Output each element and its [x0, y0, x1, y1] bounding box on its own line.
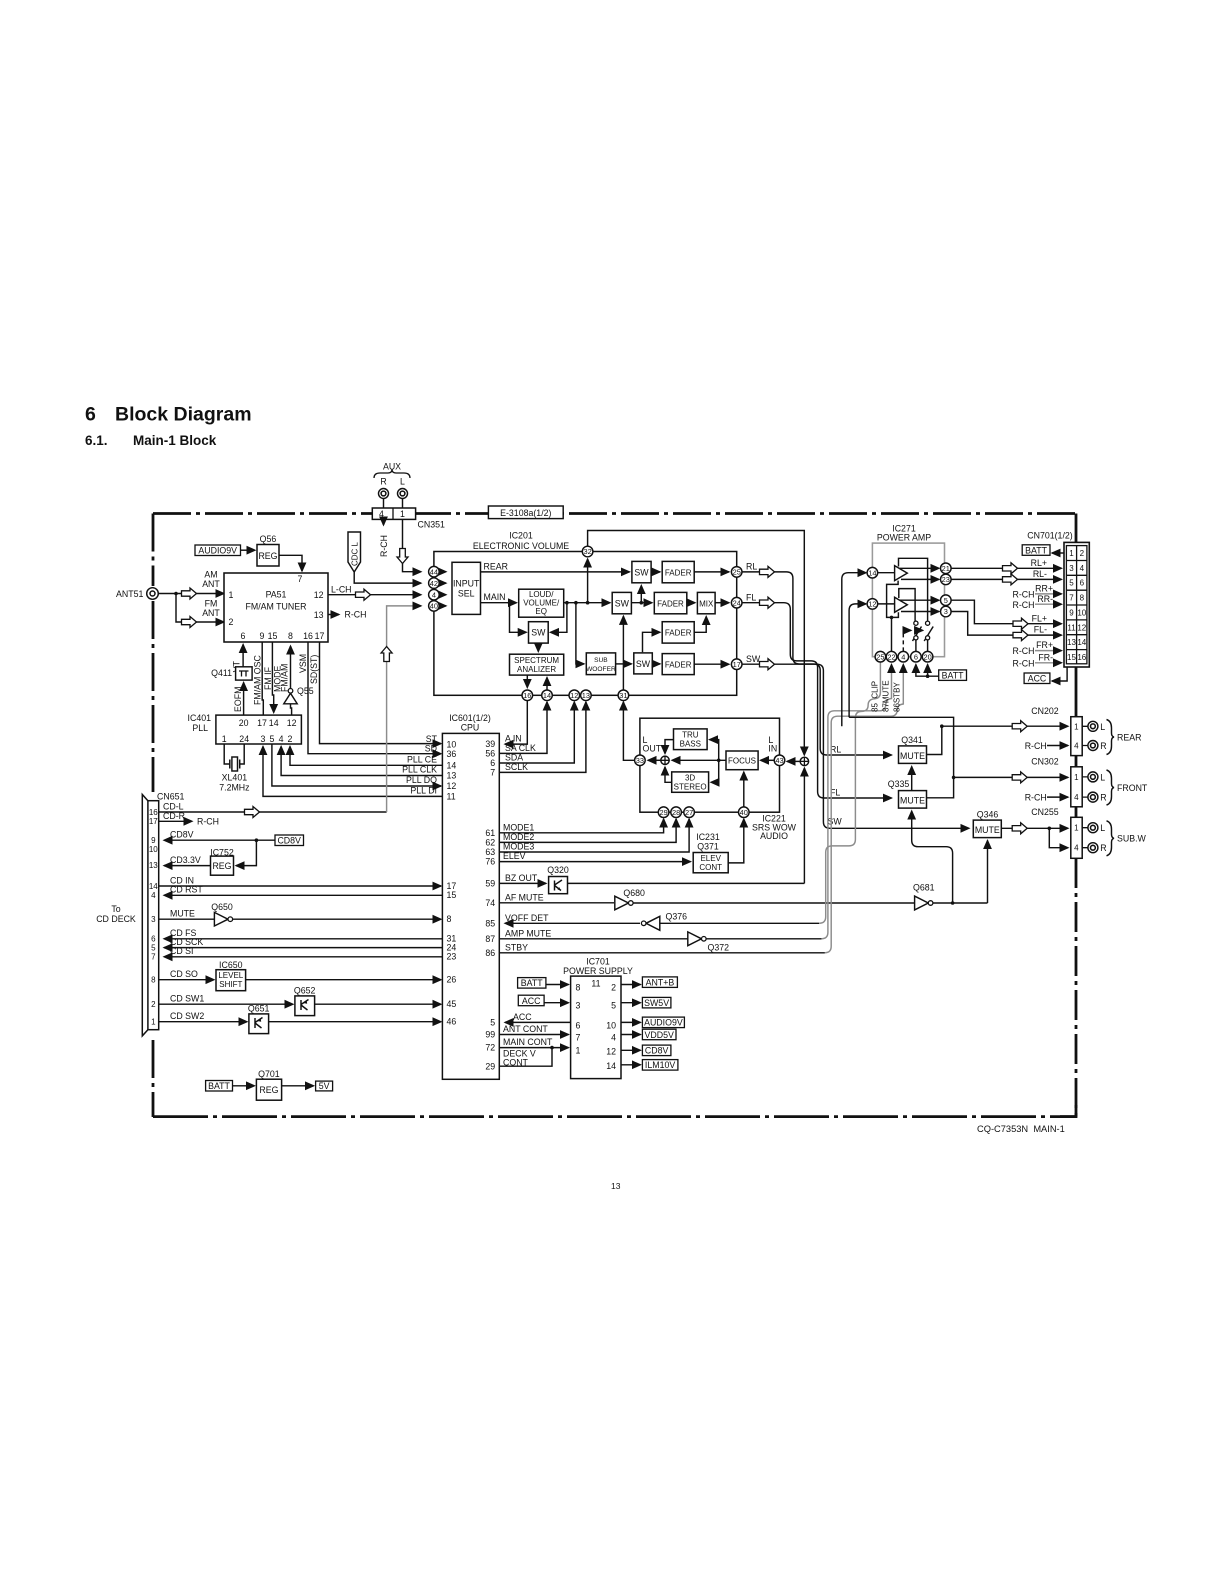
wire CD SI: CPU pin23 to CN651 pin7 — [164, 956, 442, 958]
svg-text:ELECTRONIC VOLUME: ELECTRONIC VOLUME — [473, 541, 569, 551]
svg-text:4: 4 — [1074, 844, 1079, 853]
svg-text:7: 7 — [490, 768, 495, 778]
svg-text:Q681: Q681 — [913, 883, 935, 893]
wire IC701 pin10 to AUDIO9V — [621, 1021, 640, 1023]
svg-text:11: 11 — [447, 791, 456, 801]
svg-text:6: 6 — [151, 935, 156, 944]
svg-text:XL401: XL401 — [222, 773, 248, 783]
svg-text:VDD5V: VDD5V — [645, 1030, 674, 1040]
svg-text:14: 14 — [1077, 638, 1086, 647]
svg-text:15: 15 — [268, 631, 278, 641]
wire SDA: CPU pin6 to pin12 — [499, 702, 574, 763]
svg-text:1: 1 — [151, 1018, 156, 1027]
label box 5V — [316, 1081, 333, 1091]
svg-text:BZ OUT: BZ OUT — [505, 873, 538, 883]
svg-text:5: 5 — [611, 1001, 616, 1011]
svg-text:CN255: CN255 — [1031, 807, 1058, 817]
svg-text:87: 87 — [485, 934, 495, 944]
svg-text:MUTE: MUTE — [170, 909, 195, 919]
svg-text:FL+: FL+ — [1032, 613, 1047, 623]
svg-text:AUDIO9V: AUDIO9V — [644, 1018, 683, 1028]
svg-text:5: 5 — [944, 596, 948, 605]
svg-text:86STBY: 86STBY — [893, 682, 902, 712]
svg-text:5: 5 — [1069, 579, 1074, 588]
svg-text:STBY: STBY — [505, 942, 528, 952]
svg-text:1: 1 — [1074, 773, 1079, 782]
svg-text:CN651: CN651 — [157, 792, 184, 802]
svg-text:IC650: IC650 — [219, 960, 243, 970]
hollow arrow L-CH — [356, 589, 371, 600]
wire CD SW1: CN651 pin2 to Q652 — [159, 1003, 293, 1005]
wire BZ OUT: CPU pin59 to Q320 — [499, 882, 546, 884]
wire SW monitor to SPECTRUM ANALIZER — [537, 643, 539, 651]
IC271 pin 20 — [922, 651, 933, 662]
wire Q56 to PA51 pin7 — [279, 555, 302, 571]
IC271 pin 6 — [911, 651, 922, 662]
svg-text:Q652: Q652 — [294, 986, 316, 996]
wire Q681 out junction — [933, 902, 988, 904]
svg-text:FADER: FADER — [665, 568, 692, 577]
hollow arrow down on AUX L wire — [397, 549, 408, 564]
svg-text:VSM: VSM — [298, 654, 308, 673]
svg-text:44: 44 — [430, 567, 438, 576]
CN202 jacks — [1082, 726, 1088, 745]
svg-text:Q376: Q376 — [666, 912, 688, 922]
svg-text:25: 25 — [733, 568, 741, 577]
wire Q680 to Q681 — [633, 902, 914, 904]
wire pin14 to amp A — [878, 572, 895, 574]
svg-text:FL: FL — [746, 592, 756, 602]
IC271 pin 5 — [941, 595, 952, 606]
svg-text:TRU: TRU — [682, 731, 699, 740]
wire pin40 to INPUT SEL — [439, 605, 446, 607]
svg-text:OUT: OUT — [643, 744, 662, 754]
switch SW1 rear row — [632, 561, 651, 582]
label box ACC (CN701) — [1024, 673, 1050, 684]
wire amp B out- to pin3 — [901, 611, 939, 613]
wire pin42 to INPUT SEL — [439, 582, 446, 584]
svg-text:MUTE: MUTE — [900, 796, 925, 806]
svg-text:MODE3: MODE3 — [503, 842, 534, 852]
CN202 bracket + REAR — [1107, 720, 1115, 755]
svg-text:BATT: BATT — [942, 670, 964, 680]
svg-text:AM: AM — [204, 570, 217, 580]
svg-text:RR-: RR- — [1037, 594, 1053, 604]
svg-text:Q320: Q320 — [547, 865, 569, 875]
svg-text:8: 8 — [151, 976, 156, 985]
wire FR- R-CH stub to CN701 pin15 row — [1035, 662, 1062, 664]
svg-text:SW: SW — [746, 654, 761, 664]
svg-text:Q680: Q680 — [623, 888, 645, 898]
SRS pin 43 — [774, 755, 785, 766]
svg-text:33: 33 — [636, 756, 644, 765]
hollow arrow SW — [760, 659, 775, 670]
svg-text:40: 40 — [740, 808, 748, 817]
wire FR+ R-CH stub to CN701 pin13 row — [1035, 650, 1062, 652]
svg-text:SW: SW — [828, 817, 843, 827]
wire SW: pin17 to Q346 mute — [742, 664, 969, 828]
label box BATT (amp) — [939, 670, 967, 681]
mixer MIX — [697, 592, 715, 613]
svg-text:16: 16 — [523, 691, 531, 700]
hollow arrow CD-L — [245, 807, 260, 818]
block TRU BASS — [674, 729, 708, 750]
wire SPECTRUM to pin16 — [526, 675, 528, 687]
wire 3D STEREO to adder bottom — [665, 767, 672, 782]
IC201 pin 4 — [429, 589, 440, 600]
wire RL- pin23 to CN701 pin5 — [951, 578, 1061, 580]
wire rear line to CN202 pin1 — [942, 725, 1068, 727]
svg-text:3D: 3D — [685, 773, 695, 782]
svg-text:14: 14 — [269, 718, 279, 728]
svg-text:PLL DI: PLL DI — [410, 786, 437, 796]
svg-text:CD3.3V: CD3.3V — [170, 855, 201, 865]
svg-text:9: 9 — [260, 631, 265, 641]
wire pin32 top loop to SRS adder — [588, 531, 805, 756]
wire CN255 branch to pin4 — [1049, 828, 1068, 847]
svg-text:ST: ST — [426, 734, 438, 744]
svg-text:R: R — [1100, 741, 1106, 751]
wire pin4 to INPUT SEL — [439, 594, 446, 596]
wire amp A out+ to pin21 — [900, 567, 940, 569]
svg-text:8: 8 — [1080, 594, 1085, 603]
svg-text:ANT: ANT — [202, 608, 220, 618]
svg-text:13: 13 — [447, 770, 457, 780]
svg-text:R: R — [1100, 843, 1106, 853]
label box VDD5V — [642, 1029, 676, 1040]
svg-text:FL-: FL- — [1034, 625, 1047, 635]
wire CN351 pin1 to IC201 pin44 — [403, 519, 422, 571]
svg-text:25: 25 — [876, 652, 884, 661]
wire SW2 to FADER2 — [631, 602, 652, 604]
svg-text:R-CH: R-CH — [1013, 646, 1035, 656]
svg-text:20: 20 — [239, 718, 249, 728]
svg-text:7: 7 — [1069, 594, 1074, 603]
svg-text:14: 14 — [543, 691, 551, 700]
inverter Q372 — [688, 932, 702, 946]
svg-text:EOFM: EOFM — [233, 687, 243, 712]
svg-text:ACC: ACC — [1028, 674, 1047, 684]
svg-text:MIX: MIX — [699, 599, 714, 608]
svg-text:10: 10 — [149, 845, 158, 854]
svg-text:FRONT: FRONT — [1117, 783, 1148, 793]
svg-text:15: 15 — [1067, 653, 1076, 662]
svg-text:23: 23 — [942, 575, 950, 584]
wire pin12 to amp B — [878, 603, 895, 605]
svg-text:32: 32 — [583, 547, 591, 556]
IC201 pin 25 — [731, 567, 742, 578]
CN302 bracket + FRONT — [1107, 770, 1115, 805]
wire REAR: INPUT SEL to SW1 — [481, 571, 630, 573]
svg-text:L: L — [1100, 772, 1105, 782]
wire FADER3 to MIX bottom — [694, 617, 706, 633]
svg-text:CD8V: CD8V — [277, 836, 301, 846]
svg-text:MUTE: MUTE — [900, 751, 925, 761]
wire CD-L: CN651 pin16 to IC201 pin40 — [159, 811, 387, 813]
svg-text:SUB: SUB — [594, 657, 608, 664]
svg-text:4: 4 — [379, 509, 384, 519]
svg-text:ELEV: ELEV — [503, 851, 526, 861]
IC271 pin 22 — [886, 651, 897, 662]
AUX brace — [374, 470, 410, 479]
svg-text:AUDIO: AUDIO — [760, 831, 788, 841]
wire junction to 3D STEREO — [711, 760, 719, 782]
svg-text:IC201: IC201 — [509, 531, 533, 541]
frame: border right (solid behind connectors, dash-dot below) — [1075, 514, 1078, 859]
svg-text:Q341: Q341 — [901, 735, 923, 745]
label box ANT+B — [642, 977, 677, 988]
wire IC701 pin14 to ILM10V — [621, 1064, 640, 1066]
svg-text:3: 3 — [261, 734, 266, 744]
svg-text:10: 10 — [1077, 608, 1086, 617]
svg-text:12: 12 — [868, 600, 876, 609]
svg-text:R-CH: R-CH — [1025, 741, 1047, 751]
svg-text:CD8V: CD8V — [170, 830, 194, 840]
wire mute control up to Q346 — [987, 841, 989, 904]
svg-text:REG: REG — [212, 861, 231, 871]
crystal XL401 — [224, 744, 244, 764]
svg-text:2: 2 — [611, 983, 616, 993]
svg-text:1: 1 — [1069, 549, 1074, 558]
svg-text:99: 99 — [485, 1030, 495, 1040]
svg-text:13: 13 — [314, 610, 324, 620]
wire PA51 pin6 VT from Q411 — [242, 645, 244, 669]
wire RR+ R-CH stub to CN701 pin7 — [1035, 593, 1062, 595]
svg-text:CN202: CN202 — [1031, 706, 1058, 716]
pointed label CDC L — [348, 532, 361, 572]
SRS pin 40 — [739, 807, 750, 818]
svg-text:5: 5 — [151, 943, 156, 952]
svg-text:Q56: Q56 — [260, 534, 277, 544]
svg-text:FM/AM OSC: FM/AM OSC — [253, 655, 263, 705]
CN255 jacks — [1082, 828, 1088, 848]
AUX L jack — [398, 489, 408, 499]
wire DECK V CONT: CPU pin29 joins MAIN CONT — [499, 1048, 552, 1067]
wire ACC out: IC701 pin6 to CPU pin5 — [505, 1021, 571, 1023]
wire BATT to pins 6 and 20 — [916, 665, 939, 677]
wire FM IF PA51 pin15 to IC401 pin14 — [272, 642, 273, 712]
svg-text:12: 12 — [570, 691, 578, 700]
wire AUDIO9V to Q56 — [241, 549, 256, 551]
wire Q372 to IC271 pin22 (87 MUTE) — [706, 938, 821, 940]
svg-text:Q411: Q411 — [211, 668, 232, 678]
svg-text:14: 14 — [606, 1061, 616, 1071]
wire CD RST: CPU pin15 to CN651 pin4 — [164, 894, 442, 896]
label box BATT (Q701) — [206, 1081, 233, 1092]
wire adder to pin33 — [648, 759, 661, 761]
amp B feedback loop — [899, 589, 915, 622]
wire FADER1 to pin25 — [694, 571, 729, 573]
svg-text:6: 6 — [241, 631, 246, 641]
svg-text:VOFF DET: VOFF DET — [505, 913, 549, 923]
svg-text:REG: REG — [259, 1085, 278, 1095]
svg-text:74: 74 — [485, 898, 495, 908]
wire LEVEL SHIFT to CPU pin26 — [246, 979, 441, 981]
svg-text:1: 1 — [1074, 824, 1079, 833]
wire pin14 to SPECTRUM — [546, 678, 548, 691]
wire branch down-right into SW-monitor right — [550, 603, 567, 633]
label box BATT (CN701) — [1022, 545, 1050, 556]
svg-text:6.1.: 6.1. — [85, 433, 108, 448]
svg-text:13: 13 — [149, 861, 158, 870]
svg-text:Q701: Q701 — [258, 1069, 280, 1079]
wire BATT to Q701 — [233, 1085, 255, 1087]
wire amp B out+ to pin5 — [900, 599, 940, 601]
hollow arrow FM ANT — [182, 617, 197, 628]
svg-text:ANT51: ANT51 — [116, 589, 143, 599]
svg-text:29: 29 — [659, 808, 667, 817]
svg-text:86: 86 — [485, 948, 495, 958]
label box E-3108a(1/2) — [488, 506, 563, 519]
fader FADER1 rear — [662, 561, 694, 582]
wire Q651 to CPU pin46 — [269, 1021, 441, 1023]
svg-text:14: 14 — [149, 882, 158, 891]
svg-text:29: 29 — [485, 1061, 495, 1071]
svg-text:22: 22 — [887, 652, 895, 661]
svg-text:3: 3 — [576, 1001, 581, 1011]
svg-text:PLL: PLL — [192, 723, 208, 733]
wire Q346 out to CN255 pin1 — [1001, 827, 1068, 829]
svg-text:R: R — [380, 477, 386, 487]
wire SCLK: CPU pin7 to pin13 — [499, 702, 586, 772]
wire FOCUS to adder — [672, 759, 726, 761]
svg-text:R-CH: R-CH — [1013, 600, 1035, 610]
IC201 pin 42 — [429, 578, 440, 589]
wire Q55 to PA51 pin8 — [290, 646, 292, 689]
wire LOUD out to SW2 — [564, 602, 610, 604]
svg-text:4: 4 — [432, 590, 436, 599]
svg-text:4: 4 — [151, 891, 156, 900]
svg-text:FM/AM: FM/AM — [280, 664, 290, 692]
wire CD8V branch into IC752 — [236, 840, 256, 865]
wire SD(ST) PA51 pin17 to CPU ST — [320, 642, 442, 743]
svg-text:Block Diagram: Block Diagram — [115, 404, 252, 426]
svg-text:36: 36 — [447, 749, 457, 759]
svg-text:CD SW2: CD SW2 — [170, 1011, 204, 1021]
svg-text:RL: RL — [746, 562, 757, 572]
svg-text:ACC: ACC — [513, 1012, 532, 1022]
wire AM ANT into PA51 pin1 — [176, 593, 224, 595]
SRS pin 29 — [658, 807, 669, 818]
wire BATT to IC701 pin8 — [546, 984, 569, 986]
wire CD SW2: CN651 pin1 to Q651 — [159, 1021, 247, 1023]
connector CN351 — [372, 508, 415, 519]
svg-text:61: 61 — [485, 828, 495, 838]
svg-text:SW: SW — [634, 567, 649, 577]
wire CLIP bundle to Q376 — [660, 922, 819, 924]
svg-text:FM/AM TUNER: FM/AM TUNER — [246, 602, 307, 612]
svg-text:CONT: CONT — [503, 1057, 529, 1067]
IC201 pin 14 — [542, 690, 553, 701]
wire pin44 to INPUT SEL — [439, 571, 446, 573]
IC201 pin 13 — [581, 690, 592, 701]
svg-text:13: 13 — [611, 1181, 621, 1191]
wire FL+ pin5 to CN701 pin11 — [951, 600, 1061, 624]
svg-text:CN302: CN302 — [1031, 757, 1058, 767]
wire branch up into pin32 — [587, 559, 589, 603]
wire MAIN CONT: CPU pin72 to IC701 pin1 — [499, 1047, 568, 1049]
svg-text:SW5V: SW5V — [644, 998, 669, 1008]
svg-text:SEL: SEL — [458, 589, 475, 599]
svg-text:9: 9 — [1069, 608, 1074, 617]
svg-text:16: 16 — [149, 808, 158, 817]
svg-text:62: 62 — [485, 838, 495, 848]
wire STBY: CPU pin86 to IC271 pin4 (86 STBY) — [499, 952, 825, 954]
svg-text:INPUT: INPUT — [453, 579, 480, 589]
svg-text:Q371: Q371 — [697, 841, 719, 851]
amp A feedback loop — [899, 558, 928, 621]
wire CD-R R-CH stub — [159, 820, 192, 822]
svg-text:R-CH: R-CH — [379, 535, 389, 557]
svg-text:13: 13 — [1067, 638, 1076, 647]
wire R-CH stub to CN202 pin4 — [1047, 745, 1068, 747]
svg-text:11: 11 — [1067, 623, 1076, 632]
svg-text:42: 42 — [430, 579, 438, 588]
svg-text:7: 7 — [576, 1033, 581, 1043]
svg-text:1: 1 — [400, 509, 405, 519]
wire pin31 up into SW2 — [622, 616, 624, 690]
svg-text:PLL DO: PLL DO — [406, 775, 437, 785]
svg-text:24: 24 — [239, 734, 249, 744]
label box AUDIO9V — [642, 1017, 684, 1028]
svg-text:46: 46 — [447, 1017, 457, 1027]
wire PLL DO IC401 pin5 to CPU pin12 — [272, 744, 441, 786]
svg-text:REG: REG — [258, 551, 277, 561]
wire Q701 to 5V — [282, 1085, 314, 1087]
svg-text:FOCUS: FOCUS — [728, 756, 756, 765]
fader FADER2 main — [654, 592, 687, 613]
wire FM/AM OSC PA51 pin9 to IC401 pin17 — [262, 642, 263, 715]
wire CD8V to CN651 pin9 — [164, 839, 275, 841]
svg-text:CD8V: CD8V — [645, 1046, 669, 1056]
wire IC701 pin4 to VDD5V — [621, 1034, 640, 1036]
svg-text:SD(ST): SD(ST) — [309, 655, 319, 684]
wire AMP MUTE: CPU pin87 to Q372 — [499, 938, 687, 940]
switch SW2 main row — [612, 592, 631, 613]
svg-text:12: 12 — [314, 590, 324, 600]
wire Q341 out to CN202 junction — [927, 726, 942, 754]
svg-text:CN351: CN351 — [418, 520, 445, 530]
svg-text:10: 10 — [447, 740, 457, 750]
label box SW5V — [642, 997, 671, 1008]
wire PA51 pin13 R-CH stub — [328, 614, 339, 616]
wire adder right to pin43 — [787, 760, 800, 762]
svg-text:23: 23 — [447, 952, 457, 962]
svg-text:BASS: BASS — [680, 740, 701, 749]
svg-text:7: 7 — [151, 953, 156, 962]
CN255 bracket + SUB.W — [1107, 821, 1115, 856]
svg-text:14: 14 — [868, 568, 876, 577]
wire PLL CE CPU pin14 to IC401 pin2 — [290, 747, 442, 766]
wire SW1 to FADER1 — [651, 571, 660, 573]
wire IC401 pin12 to Q55 — [291, 704, 292, 715]
svg-text:2: 2 — [229, 617, 234, 627]
svg-text:Q372: Q372 — [708, 943, 730, 953]
svg-text:IN: IN — [768, 744, 777, 754]
wire ACC to IC701 pin3 — [544, 1002, 568, 1004]
adder right (L IN) — [800, 757, 808, 765]
wire TRU BASS to adder top — [665, 740, 674, 754]
wire AF MUTE: CPU pin74 to Q680 — [499, 902, 614, 904]
svg-text:13: 13 — [582, 691, 590, 700]
wire MIX to pin24 — [715, 602, 729, 604]
svg-text:FADER: FADER — [665, 661, 692, 670]
block SUB WOOFER — [586, 653, 615, 675]
wire Q650 to CPU pin8 — [233, 918, 441, 920]
block SPECTRUM ANALIZER — [510, 654, 564, 675]
svg-text:Main-1 Block: Main-1 Block — [133, 433, 217, 448]
svg-text:WOOFER: WOOFER — [586, 666, 616, 673]
